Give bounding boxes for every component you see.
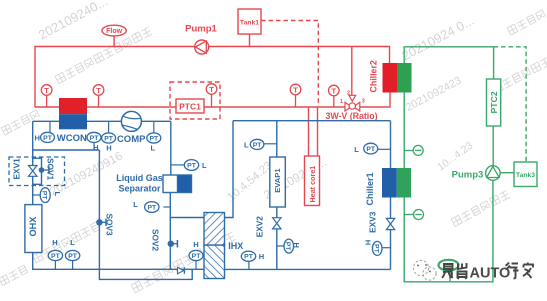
- wire red main pipe: [35, 93, 390, 108]
- chiller Chiller2 block: [369, 60, 412, 92]
- pressure sensor PT H exv3 rotated: [363, 240, 390, 256]
- compressor COMP: [117, 111, 146, 145]
- svg-text:COMP: COMP: [117, 134, 146, 145]
- watermark company left edge: [1, 110, 39, 136]
- watermark company green area: [451, 190, 510, 226]
- wire blue EVAP1 feed: [276, 121, 278, 157]
- logo text: [442, 263, 533, 280]
- svg-text:SOV3: SOV3: [105, 214, 115, 237]
- wire green chiller1 down and bottom: [404, 180, 493, 282]
- flow sensor Flow: [102, 25, 126, 46]
- wire blue IHX top-right riser: [225, 121, 234, 218]
- check valve: [178, 267, 185, 274]
- wire blue bottom right line: [225, 268, 391, 270]
- watermark company bottom-left corner: [0, 265, 28, 285]
- svg-text:1: 1: [340, 99, 343, 105]
- wire blue EXV1 parallel branch: [33, 158, 42, 184]
- temperature sensor green upper: [404, 145, 423, 155]
- svg-text:L: L: [53, 192, 62, 197]
- pump Pump1: [185, 24, 217, 55]
- wire green dashed to Tank3: [494, 47, 526, 162]
- pressure sensor PT L comp-right: [147, 121, 161, 152]
- svg-text:PT: PT: [149, 136, 159, 143]
- evaporator EVAP1: [270, 157, 286, 207]
- svg-text:H: H: [292, 243, 301, 248]
- temperature sensor T5: [329, 85, 340, 107]
- wire blue suction top line: [233, 120, 391, 122]
- watermark company top-left: [55, 27, 152, 84]
- wire heat core return: [317, 107, 319, 156]
- svg-text:Pump3: Pump3: [452, 170, 484, 181]
- svg-text:T: T: [293, 85, 298, 94]
- svg-text:SOV2: SOV2: [151, 229, 161, 252]
- svg-text:PT: PT: [104, 136, 114, 143]
- svg-text:PT: PT: [41, 191, 48, 201]
- pressure sensor PT H exv2 rotated: [277, 239, 301, 253]
- svg-text:Tank1: Tank1: [240, 20, 259, 27]
- svg-text:L: L: [202, 161, 207, 170]
- pump Pump3: [452, 166, 501, 181]
- wire green PTC2 to pump3: [492, 126, 494, 166]
- svg-text:H: H: [259, 252, 264, 261]
- svg-text:PT: PT: [373, 244, 380, 254]
- svg-text:IHX: IHX: [228, 241, 243, 251]
- svg-text:L: L: [133, 200, 138, 209]
- svg-text:L: L: [151, 144, 156, 153]
- svg-text:WCON: WCON: [57, 133, 87, 144]
- svg-text:T: T: [44, 86, 49, 95]
- svg-text:L: L: [70, 238, 75, 247]
- svg-text:3W-V (Ratio): 3W-V (Ratio): [325, 111, 377, 121]
- heater PTC2: [487, 79, 501, 126]
- pressure sensor PT H ihx-left: [189, 240, 203, 269]
- svg-text:H: H: [52, 238, 57, 247]
- svg-text:PT: PT: [366, 146, 376, 153]
- pressure sensor PT H wcon-right: [87, 132, 101, 152]
- solenoid valve SOV3: [96, 214, 114, 237]
- wire red dashed expansion line: [261, 21, 318, 107]
- svg-text:PTC2: PTC2: [489, 91, 499, 113]
- svg-text:Chiller2: Chiller2: [369, 60, 379, 92]
- svg-text:L: L: [244, 141, 249, 150]
- pressure sensor PT L chiller1-top: [354, 143, 390, 154]
- svg-text:T: T: [96, 86, 101, 95]
- svg-text:PT: PT: [68, 253, 78, 260]
- wire red to 3W-V port2: [351, 47, 353, 100]
- pressure sensor PT H comp-left: [102, 121, 116, 152]
- watermark company right edge: [492, 57, 547, 93]
- wire heat core supply: [308, 107, 310, 156]
- svg-text:Heat core1: Heat core1: [308, 166, 317, 203]
- svg-text:PTC1: PTC1: [179, 102, 201, 112]
- wire blue left jog: [33, 121, 100, 150]
- svg-text:T: T: [209, 85, 214, 94]
- svg-text:PT: PT: [43, 135, 53, 142]
- temperature sensor T4: [290, 84, 301, 107]
- wire blue discharge top line: [33, 120, 171, 122]
- wire green chiller2 to top: [404, 47, 493, 63]
- pressure sensor PT L rotated below EXV1: [33, 188, 62, 203]
- svg-text:Separator: Separator: [118, 184, 161, 194]
- wire red top loop: [35, 47, 390, 108]
- pressure sensor PT H ohx-bottom: [48, 238, 62, 269]
- temperature sensor T1: [41, 85, 52, 107]
- temperature sensor T2: [93, 85, 104, 107]
- pressure sensor PT L ohx-bottom: [65, 238, 79, 269]
- dashed box around EXV1 SOV1: [9, 157, 65, 186]
- svg-text:H: H: [106, 143, 111, 152]
- wire blue to IHX top-left: [170, 217, 204, 219]
- svg-text:Pump1: Pump1: [185, 24, 217, 35]
- wire blue separator outlet to SOV2: [169, 193, 171, 270]
- heat exchanger IHX block: [204, 213, 243, 279]
- svg-text:PT: PT: [187, 163, 197, 170]
- heat exchanger OHX: [25, 205, 42, 253]
- svg-text:PT: PT: [244, 254, 254, 261]
- svg-text:PT: PT: [51, 253, 61, 260]
- svg-text:2: 2: [347, 91, 350, 97]
- wire blue SOV3 branch and bypass: [99, 150, 192, 279]
- wire blue EXV3 down: [390, 229, 392, 269]
- svg-text:PT: PT: [253, 142, 263, 149]
- svg-text:OHX: OHX: [28, 216, 38, 237]
- watermark company top-right corner: [507, 10, 545, 36]
- svg-text:PT: PT: [147, 205, 157, 212]
- svg-text:H: H: [93, 143, 98, 152]
- valve EXV1: [12, 158, 38, 180]
- wire blue EXV2 down: [276, 229, 278, 270]
- svg-text:H: H: [363, 240, 372, 245]
- watermark company bottom-center: [131, 232, 236, 293]
- svg-text:EVAP1: EVAP1: [273, 168, 282, 193]
- valve 3W-V (Ratio): [325, 91, 377, 121]
- pressure sensor PT H ihx-right: [241, 251, 264, 269]
- svg-text:PT: PT: [90, 135, 100, 142]
- wire green chiller2 to chiller1: [403, 93, 405, 169]
- flow sensor green oval: [439, 260, 459, 282]
- solenoid valve SOV1: [39, 158, 56, 181]
- temperature sensor green lower: [404, 210, 423, 220]
- tank Tank1: [238, 9, 261, 47]
- svg-text:Liquid Gas: Liquid Gas: [116, 173, 163, 183]
- pressure sensor PT H wcon-left: [34, 121, 54, 142]
- pressure sensor PT L evap-top: [244, 139, 277, 149]
- svg-text:EXV1: EXV1: [12, 158, 22, 180]
- svg-text:3: 3: [362, 98, 365, 104]
- pressure sensor PT L separator-bottom: [133, 200, 170, 212]
- accumulator Liquid Gas Separator: [116, 173, 191, 194]
- valve EXV3: [368, 211, 395, 233]
- svg-text:H: H: [193, 240, 198, 249]
- heat exchanger Heat core1: [305, 156, 320, 206]
- logo sketch circles: [413, 260, 436, 280]
- condenser WCON block: [57, 98, 87, 144]
- valve EXV2: [255, 216, 282, 238]
- wire blue Chiller1 feed: [390, 121, 392, 168]
- watermark company left-bottom: [32, 222, 100, 263]
- svg-text:T: T: [332, 86, 337, 95]
- svg-text:EXV2: EXV2: [255, 216, 265, 238]
- tank Tank3: [500, 162, 537, 187]
- svg-text:H: H: [34, 134, 39, 143]
- wire blue Chiller1 to EXV3: [390, 198, 392, 219]
- wire blue main left vertical and bottom line: [33, 150, 204, 269]
- svg-text:L: L: [354, 145, 359, 154]
- svg-text:Tank3: Tank3: [516, 172, 535, 179]
- svg-text:AUTO: AUTO: [470, 266, 511, 282]
- svg-text:PT: PT: [192, 253, 202, 260]
- svg-text:SOV1: SOV1: [46, 158, 56, 181]
- svg-text:PT: PT: [284, 242, 291, 252]
- logo dots: [417, 264, 431, 272]
- chiller Chiller1 block: [365, 168, 411, 206]
- svg-text:Flow: Flow: [106, 28, 122, 35]
- solenoid valve SOV2: [151, 229, 178, 252]
- svg-text:EXV3: EXV3: [368, 211, 378, 233]
- heater PTC1: [170, 82, 220, 119]
- pressure sensor PT L separator-top: [171, 160, 207, 171]
- svg-text:Chiller1: Chiller1: [365, 172, 375, 205]
- wire blue separator feed: [170, 121, 172, 175]
- wire blue EVAP1 to EXV2: [276, 207, 278, 218]
- temperature sensor T3 on PTC1: [206, 84, 217, 107]
- wire green PTC2 riser: [493, 47, 495, 79]
